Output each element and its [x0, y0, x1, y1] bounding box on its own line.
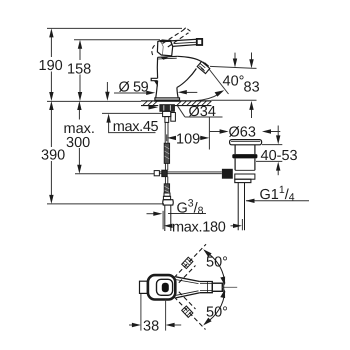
FAUCET FRONT VIEW — [141, 28, 222, 231]
arrow 158 up — [78, 40, 82, 49]
arrow max300 up — [77, 101, 81, 110]
arrow 190 up — [49, 28, 53, 37]
drain neck — [235, 145, 255, 154]
dim 38 left line — [129, 324, 133, 326]
body left edge — [156, 57, 158, 78]
svg-text:40°: 40° — [223, 74, 245, 90]
max180 left extension line — [162, 211, 164, 230]
arrow deck-bottom right-point — [149, 105, 159, 110]
dim 40-53 upper extension — [262, 144, 282, 146]
lever arm — [171, 39, 197, 46]
arrow G1 1/4 left-point — [246, 199, 255, 203]
arrow Ø63 right-point — [220, 129, 229, 133]
handle arm taper shading — [176, 280, 199, 296]
dim 83 top stem — [251, 53, 253, 63]
G1 1/4 leader underline — [246, 200, 309, 202]
svg-text:max.180: max.180 — [172, 220, 226, 236]
drain tailpipe — [238, 183, 244, 231]
lever top seam — [160, 40, 172, 43]
dim 390 line — [50, 106, 52, 147]
dim 40-53 arrow stems — [277, 126, 279, 139]
svg-text:83: 83 — [244, 80, 260, 96]
arrow max180 left — [164, 224, 173, 228]
thin rod — [165, 122, 168, 143]
svg-text:190: 190 — [39, 58, 63, 74]
deck top line right — [179, 100, 212, 102]
DIMENSION LINES GROUP — [47, 28, 309, 230]
arrow 390 down — [49, 195, 53, 204]
handle knob D mark — [162, 283, 169, 292]
centerline tick — [223, 282, 225, 292]
spout shoulder outer curve — [177, 56, 201, 61]
pop-up rod wedge — [154, 81, 158, 87]
dim 83 bottom stem — [251, 107, 253, 119]
rod left cap — [154, 171, 159, 176]
dim 40-53 lower extension — [256, 160, 282, 162]
connector block 2 — [165, 117, 169, 123]
drain body — [235, 158, 255, 170]
dashed swing arc — [152, 45, 155, 56]
lower 50 arc — [205, 291, 225, 324]
deck bottom line left — [141, 105, 158, 107]
plain rod 2 — [165, 177, 167, 184]
dim 38 right line — [174, 324, 181, 326]
arrow 190 down — [49, 92, 53, 101]
POP-UP DRAIN DETAIL — [222, 140, 261, 231]
arrow 40-53 up — [276, 162, 280, 171]
handle end cap — [212, 283, 222, 291]
arrow max45 up — [106, 114, 110, 123]
bottom reference line 390 — [47, 203, 164, 205]
dim 109 left line — [173, 137, 177, 139]
lever body inner line — [161, 42, 163, 55]
handle left tab — [140, 281, 148, 293]
drain flange lip line — [231, 140, 260, 142]
base plinth — [155, 98, 180, 101]
drain o-ring — [232, 154, 257, 158]
arrowhead 38 left-point — [166, 323, 175, 327]
pop-up rod level line — [75, 173, 154, 175]
svg-text:390: 390 — [41, 148, 65, 164]
dashed +50 line b — [179, 266, 196, 283]
mounting surface line left — [47, 100, 141, 102]
svg-text:40-53: 40-53 — [261, 148, 298, 164]
arrow 158 down — [78, 92, 82, 101]
dim 190 line — [50, 34, 52, 58]
arrowhead upper arc bottom — [220, 277, 225, 286]
svg-text:109: 109 — [176, 132, 200, 148]
svg-text:Ø 59: Ø 59 — [119, 80, 149, 96]
dashed raised lever line 1 — [163, 30, 184, 43]
body seam line — [158, 57, 177, 60]
40deg water line — [209, 69, 229, 94]
dim Ø63 left line — [210, 131, 223, 133]
dim Ø63 right line — [268, 131, 281, 133]
dim 158 line — [79, 45, 81, 60]
handle arm shaft — [200, 282, 213, 293]
svg-text:300: 300 — [66, 135, 90, 151]
Ø34 leader diagonal — [178, 106, 185, 117]
40deg arc — [196, 94, 220, 101]
dim 38 right extension — [165, 300, 167, 331]
deck hatch left — [143, 101, 158, 105]
dashed raised lever tip — [183, 28, 190, 34]
pop-up rod tab — [151, 78, 157, 80]
lever end cap — [197, 39, 202, 45]
max45 bottom envelope line — [102, 112, 163, 114]
dashed -50 line b — [179, 292, 196, 309]
arrow spout line pointer down — [233, 59, 237, 68]
drain washer — [235, 179, 251, 182]
arrow 40-53 down — [276, 135, 280, 144]
arrow Ø59 left mirror — [178, 90, 187, 94]
ARROWHEADS GROUP — [49, 28, 280, 228]
svg-text:Ø63: Ø63 — [229, 125, 256, 141]
max180 dim line segments — [169, 225, 172, 227]
hose barrel nut — [163, 200, 174, 205]
dim 109 right line — [200, 137, 204, 139]
max45 leader stem and underline — [109, 119, 156, 133]
deck bottom line right — [175, 105, 212, 107]
body right edge — [177, 88, 178, 98]
spout line pointer stem — [234, 53, 236, 62]
hatched tip +50 — [182, 257, 193, 268]
arrow Ø59 right — [146, 91, 155, 95]
svg-text:158: 158 — [67, 62, 91, 78]
handle knob inner ring — [157, 279, 173, 295]
handle arm taper top — [176, 277, 200, 282]
dim 38 left extension — [140, 294, 142, 331]
spout outlet reference line — [210, 66, 257, 68]
aerator hatch — [199, 62, 209, 71]
mounting nut — [160, 105, 175, 112]
arrow surface pointer down — [105, 92, 109, 101]
G3/8 leader underline — [168, 213, 206, 215]
lever arm midline — [174, 42, 197, 43]
arrow 109 left — [167, 136, 176, 140]
body top edge — [158, 56, 178, 57]
arrow 109 right — [200, 136, 209, 140]
dashed raised lever line 2 — [168, 33, 188, 47]
dim 109 axis tick — [166, 134, 168, 141]
arrow Ø63 left-point — [262, 129, 271, 133]
arrow 83 down — [249, 59, 253, 68]
arrow 83 up — [249, 101, 253, 110]
handle arm shaft lines — [200, 282, 212, 293]
connector block 1 — [163, 111, 171, 116]
G3/8 left arrow line — [147, 213, 158, 215]
horizontal pop-up rod — [159, 172, 221, 174]
threaded section 1 — [164, 143, 169, 163]
hose connector a — [164, 193, 170, 196]
arrowhead lower arc bottom — [203, 318, 211, 326]
arrow max300 down — [77, 165, 81, 174]
max180 right extension line — [241, 219, 243, 230]
hose lines — [165, 205, 171, 231]
body left edge lower — [156, 81, 158, 98]
pop-up guide tab — [171, 113, 176, 122]
top reference line (raised lever height) — [47, 27, 182, 29]
arrowhead upper arc top — [203, 249, 211, 257]
Ø34 leader underline — [185, 116, 223, 118]
arrow max180 right — [233, 224, 242, 228]
spout inner curve — [177, 69, 197, 88]
body seam wedge — [161, 57, 169, 60]
centerline — [222, 286, 237, 288]
handle knob outer — [148, 275, 175, 299]
hose connector b — [163, 196, 170, 199]
surface pointer arrow stem — [106, 82, 108, 96]
arrow 40deg arc — [215, 90, 225, 96]
drain locknut — [235, 174, 255, 179]
arrowhead 38 right-point — [132, 323, 141, 327]
arrow 390 up — [49, 101, 53, 110]
drain left port — [222, 169, 232, 178]
BOTTOM VIEW (handle top view) — [129, 244, 237, 330]
drain body bottom line — [235, 169, 255, 171]
threaded section 2 — [164, 184, 169, 193]
svg-text:38: 38 — [143, 319, 159, 335]
dim line Ø59 — [114, 92, 150, 94]
aerator rotated rect — [197, 61, 210, 73]
deck hatch right — [177, 101, 211, 105]
vertical extension x209 — [208, 117, 210, 149]
drain flange — [230, 140, 262, 145]
lever body — [157, 40, 172, 56]
svg-text:Ø34: Ø34 — [189, 104, 216, 120]
dashed -50 line a — [174, 297, 206, 330]
arrow G3/8 right-point — [153, 212, 162, 216]
second reference line (lever height) — [74, 39, 160, 41]
dashed +50 line a — [174, 244, 206, 278]
handle arm taper bottom — [176, 293, 200, 298]
deck top line left — [141, 100, 155, 102]
arrowhead lower arc top — [220, 289, 225, 298]
svg-text:max.45: max.45 — [113, 119, 159, 135]
dim max300 line — [78, 106, 80, 120]
rod center block — [162, 170, 167, 176]
upper 50 arc — [205, 251, 225, 284]
hatched tip -50 — [182, 306, 193, 317]
plain rod — [165, 163, 167, 170]
surface line right segment — [211, 99, 256, 101]
